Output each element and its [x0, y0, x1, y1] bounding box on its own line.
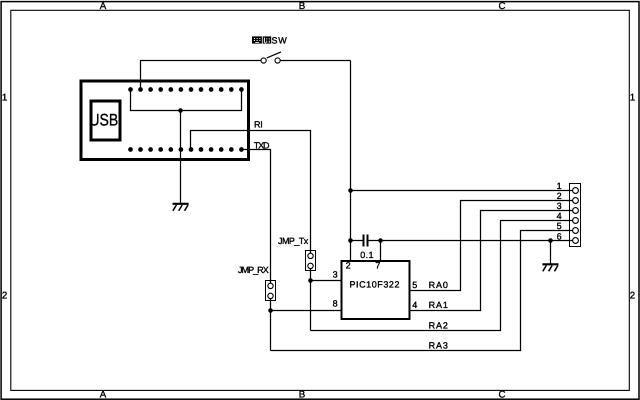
svg-text:5: 5 — [557, 221, 562, 231]
svg-text:USB: USB — [89, 110, 118, 129]
svg-text:RA1: RA1 — [429, 300, 448, 310]
svg-text:RA0: RA0 — [429, 280, 448, 290]
svg-text:6: 6 — [557, 231, 562, 241]
svg-text:0.1: 0.1 — [360, 250, 373, 260]
svg-text:2: 2 — [346, 260, 351, 270]
svg-text:1: 1 — [630, 92, 635, 103]
svg-text:7: 7 — [375, 260, 380, 270]
svg-text:4: 4 — [412, 300, 417, 310]
svg-text:3: 3 — [333, 270, 338, 280]
svg-text:3: 3 — [557, 201, 562, 211]
svg-text:SW: SW — [272, 36, 288, 46]
svg-text:RI: RI — [254, 120, 263, 130]
svg-text:RA3: RA3 — [429, 341, 448, 351]
svg-text:TXD: TXD — [254, 141, 270, 151]
svg-text:RA2: RA2 — [429, 320, 448, 330]
svg-text:A: A — [100, 1, 107, 12]
svg-text:B: B — [299, 1, 305, 12]
svg-text:A: A — [100, 390, 107, 400]
svg-text:1: 1 — [557, 181, 562, 191]
svg-text:2: 2 — [557, 191, 562, 201]
svg-text:2: 2 — [2, 290, 7, 301]
svg-text:5: 5 — [412, 280, 417, 290]
svg-text:2: 2 — [630, 290, 635, 301]
svg-text:1: 1 — [2, 92, 7, 103]
svg-text:B: B — [299, 390, 305, 400]
svg-text:C: C — [499, 390, 506, 400]
svg-text:JMP_Tx: JMP_Tx — [278, 236, 309, 246]
svg-text:4: 4 — [557, 211, 562, 221]
svg-text:C: C — [499, 1, 506, 12]
svg-text:8: 8 — [333, 299, 338, 309]
svg-text:PIC10F322: PIC10F322 — [350, 279, 400, 289]
svg-text:JMP_RX: JMP_RX — [238, 265, 269, 275]
